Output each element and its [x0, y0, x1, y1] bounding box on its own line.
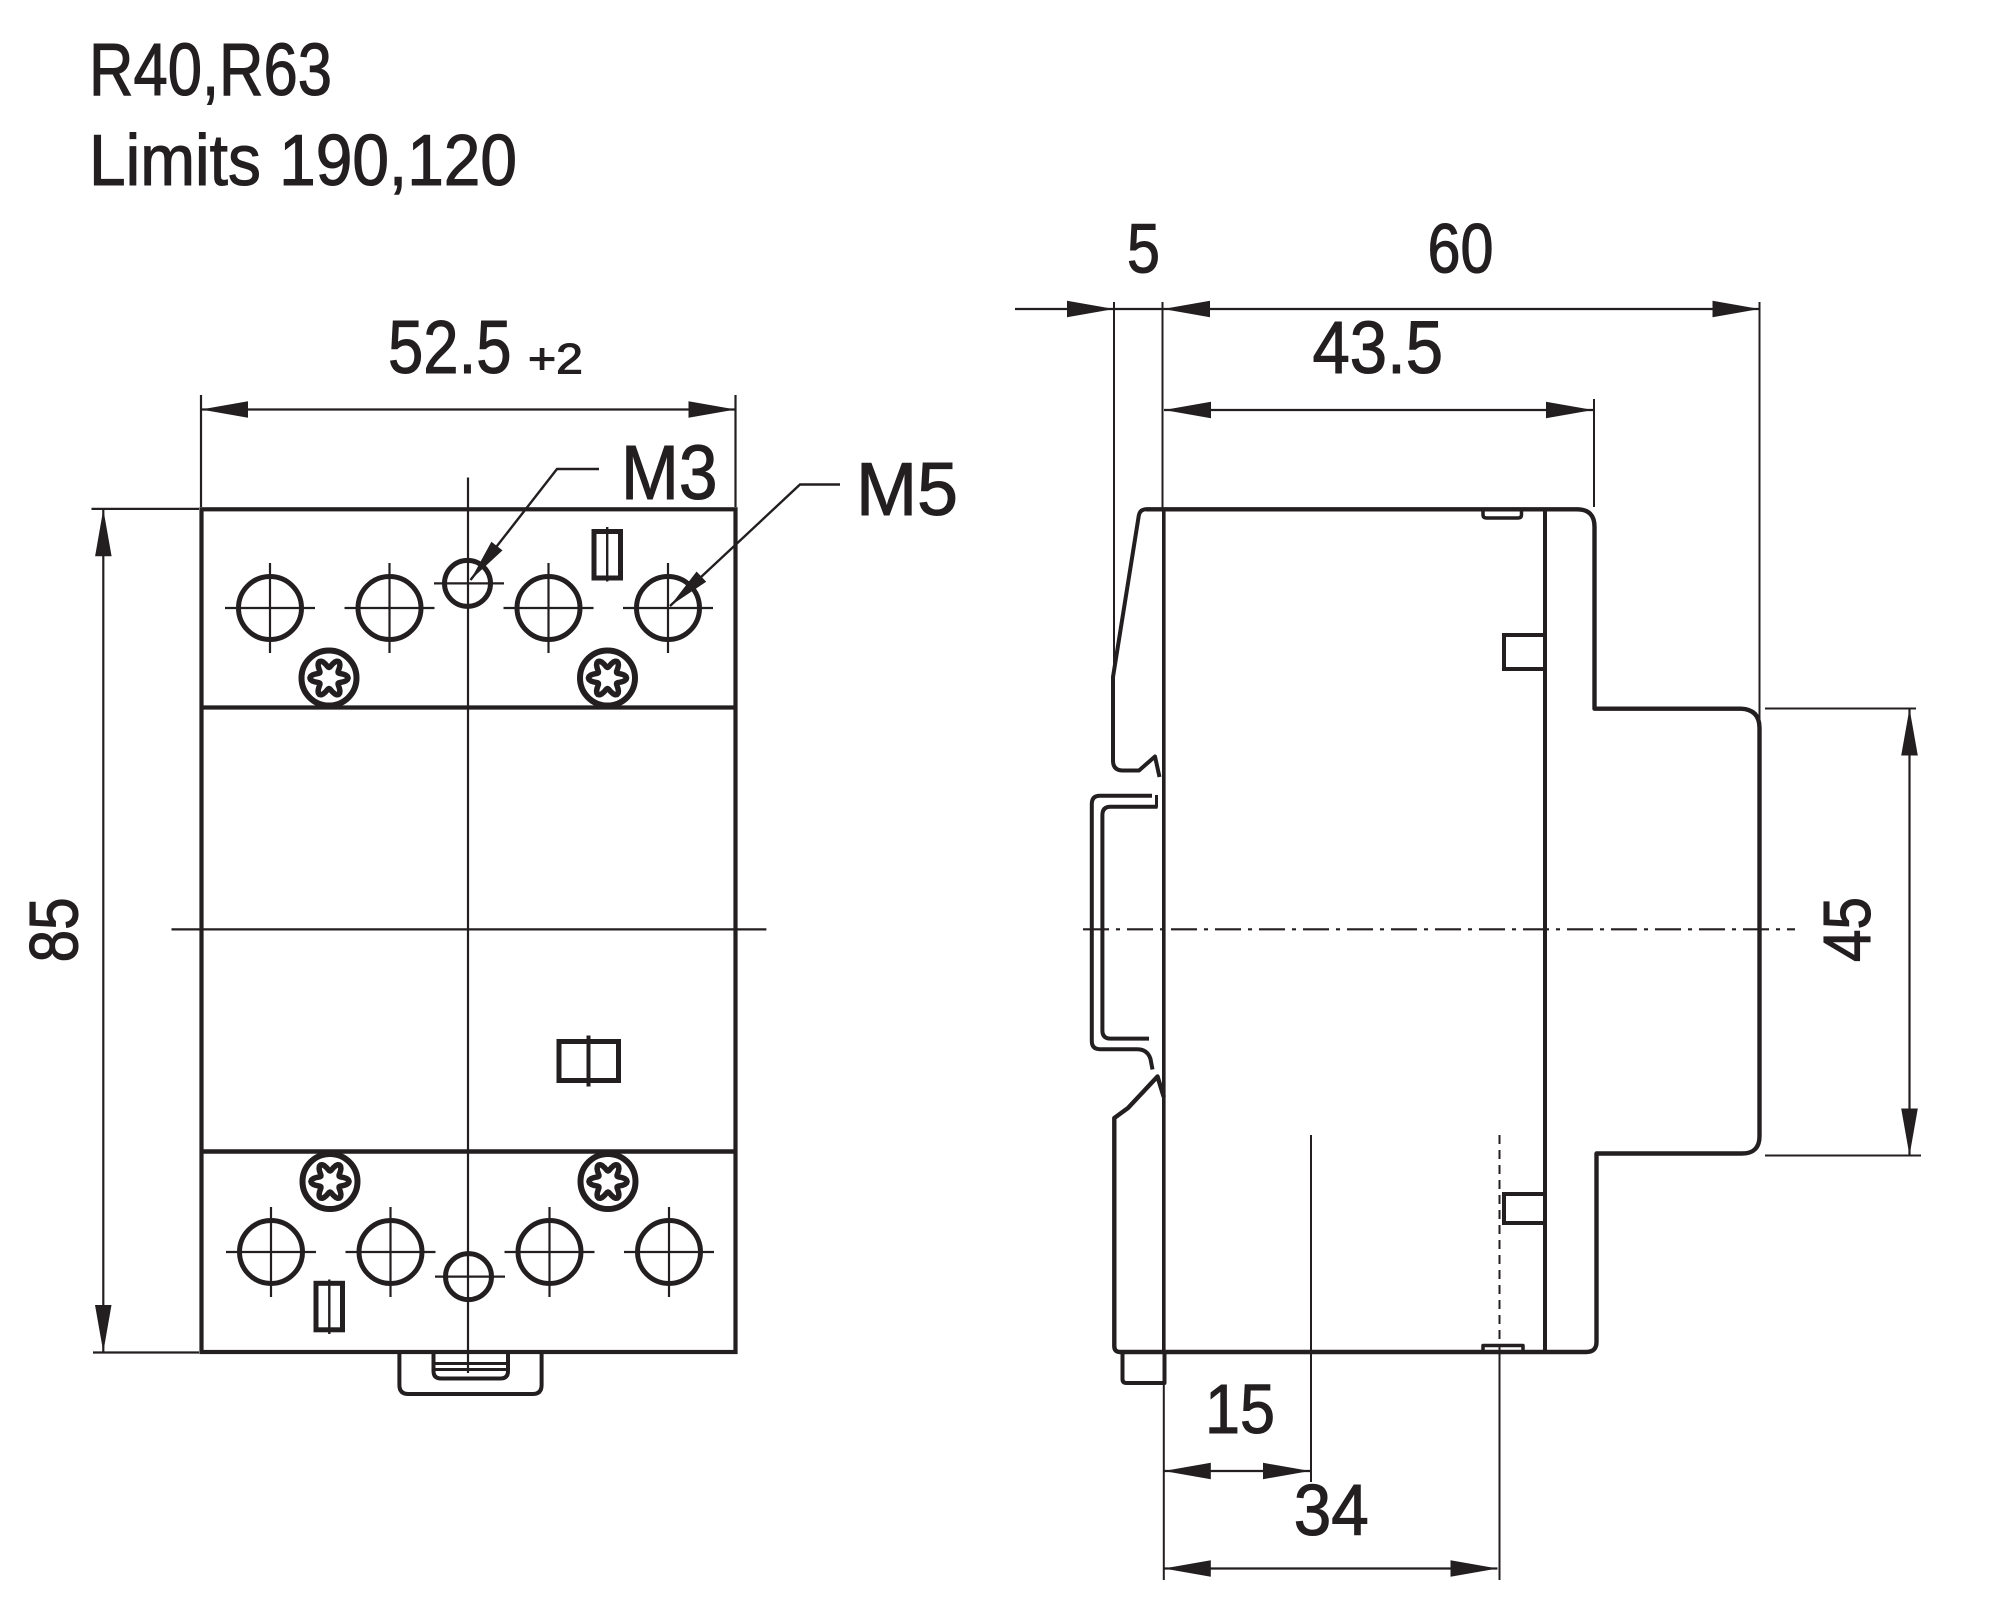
svg-text:60: 60: [1428, 210, 1494, 288]
svg-text:85: 85: [15, 897, 92, 962]
svg-text:45: 45: [1810, 897, 1885, 962]
svg-text:43.5: 43.5: [1313, 306, 1444, 389]
svg-text:Limits 190,120: Limits 190,120: [89, 121, 517, 201]
svg-text:M5: M5: [856, 447, 958, 531]
svg-text:52.5: 52.5: [388, 305, 512, 389]
svg-text:5: 5: [1127, 210, 1160, 288]
svg-text:M3: M3: [621, 430, 718, 516]
svg-text:34: 34: [1294, 1471, 1369, 1551]
svg-text:+2: +2: [528, 336, 583, 384]
svg-text:15: 15: [1205, 1370, 1275, 1448]
svg-text:R40,R63: R40,R63: [89, 28, 332, 111]
